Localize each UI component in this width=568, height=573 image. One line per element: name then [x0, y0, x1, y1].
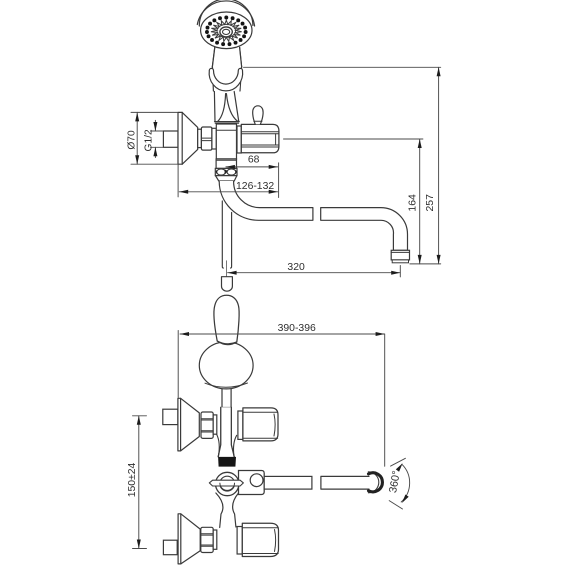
- svg-text:150±24: 150±24: [127, 462, 138, 497]
- svg-text:G1/2: G1/2: [144, 129, 155, 151]
- svg-text:320: 320: [287, 262, 305, 273]
- svg-text:68: 68: [248, 154, 260, 165]
- svg-text:126-132: 126-132: [236, 181, 274, 192]
- svg-text:257: 257: [425, 194, 436, 212]
- svg-text:390-396: 390-396: [278, 323, 316, 334]
- svg-text:164: 164: [407, 194, 418, 212]
- svg-text:Ø70: Ø70: [127, 130, 138, 150]
